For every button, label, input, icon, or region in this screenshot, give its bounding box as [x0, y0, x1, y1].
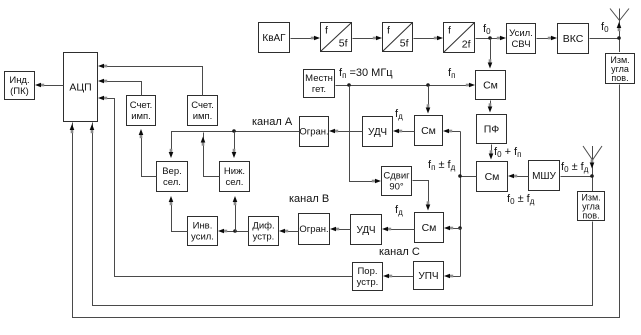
- junction fп branch to Сдвиг: [347, 83, 351, 87]
- svg-text:См: См: [421, 125, 436, 137]
- svg-text:пов.: пов.: [611, 73, 628, 83]
- block Огран-A: [299, 117, 328, 147]
- wire Инв.усил. to Вер.сел.: [172, 199, 188, 232]
- arrowhead into Усил.СВЧ: [497, 36, 506, 41]
- arrowhead into Инв.усил. right: [218, 229, 227, 234]
- wire КвАГ to multiplier1: [291, 38, 315, 40]
- block КвАГ: [259, 23, 290, 53]
- wire См-2 output to bus: [461, 176, 477, 178]
- svg-text:устр.: устр.: [357, 277, 379, 288]
- junction f0 branch: [488, 36, 492, 40]
- arrowhead into Вер.сел. top: [169, 149, 174, 158]
- wire См-B to УДЧ-B: [389, 229, 415, 231]
- svg-text:Инд.: Инд.: [9, 75, 29, 86]
- arrowhead into Ниж.сел. top: [232, 149, 237, 158]
- wire Ниж.сел. to Счет.имп.2: [204, 133, 220, 177]
- svg-text:Счет.: Счет.: [130, 100, 153, 111]
- arrowhead into Огран-B right: [330, 227, 339, 232]
- svg-text:Счет.: Счет.: [191, 100, 214, 111]
- arrowhead into ПФ: [488, 103, 493, 112]
- wire fп±fд bus vertical: [460, 132, 462, 277]
- svg-text:Огран.: Огран.: [299, 127, 328, 138]
- block Местн гет.: [304, 70, 335, 98]
- arrowhead into АЦП right 1: [98, 64, 107, 69]
- arrowhead into АЦП right 2: [98, 79, 107, 84]
- wire Сдвиг to См-B: [413, 181, 429, 207]
- wire канал А line to Вер.сел.: [172, 132, 300, 156]
- svg-text:f: f: [325, 25, 328, 37]
- block Усил.СВЧ: [507, 24, 536, 54]
- wire f0 down to См-1: [490, 39, 492, 65]
- junction antenna A1 feed junction: [617, 36, 621, 40]
- svg-text:гет.: гет.: [312, 84, 326, 95]
- svg-text:имп.: имп.: [131, 111, 151, 122]
- wire УДЧ-B to Огран-B: [337, 229, 351, 231]
- junction bus junction at См-2: [458, 174, 462, 178]
- arrowhead into См-A right: [443, 129, 452, 134]
- wire ПФ to См-2: [491, 145, 493, 156]
- block ПФ: [477, 115, 507, 144]
- svg-text:имп.: имп.: [193, 111, 213, 122]
- svg-text:См: См: [483, 80, 498, 92]
- block Ниж.сел.: [220, 162, 250, 192]
- svg-text:АЦП: АЦП: [69, 82, 91, 94]
- block См #1: [476, 71, 506, 100]
- wire УДЧ-A to Огран-A: [336, 131, 363, 133]
- wire канал А to Ниж.сел.: [234, 132, 236, 156]
- wire bus to УПЧ: [451, 276, 461, 278]
- arrowhead into Инд.(ПК): [35, 83, 44, 88]
- antenna A2 (receive): [583, 146, 602, 191]
- wire Изм.#1 to АЦП long feedback: [73, 85, 620, 318]
- wire multiplier2 to multiplier3: [414, 38, 438, 40]
- arrowhead into См-1 left: [466, 83, 475, 88]
- wire up to Ниж.сел. bottom: [235, 199, 237, 232]
- arrowhead into multiplier2: [373, 36, 382, 41]
- arrowhead into Огран-A right: [329, 129, 338, 134]
- wire МШУ to См-2: [515, 176, 529, 178]
- wire fп line to См-1: [336, 85, 470, 87]
- arrowhead into Пор.устр. right: [383, 274, 392, 279]
- wire antenna A2 to МШУ: [561, 176, 593, 178]
- arrowhead into См-A top: [426, 104, 431, 113]
- svg-text:канал С: канал С: [379, 246, 420, 258]
- block multiplier f/5f #1 (frequency multiplier): [321, 23, 352, 52]
- wire multiplier1 to multiplier2: [353, 38, 377, 40]
- wire fп down to Сдвиг 90: [350, 86, 376, 182]
- arrowhead into АЦП bottom right: [90, 124, 95, 133]
- arrowhead into Счет.имп.1 bottom: [139, 129, 144, 138]
- arrowhead into АЦП bottom left: [70, 124, 75, 133]
- arrowhead into Ниж.сел. bottom: [233, 196, 238, 205]
- arrowhead into Вер.сел. bottom: [169, 196, 174, 205]
- wire См-1 to ПФ: [490, 101, 492, 109]
- block МШУ: [529, 161, 560, 191]
- arrowhead into См-2 right: [508, 174, 517, 179]
- wire Счет.имп.2 to АЦП: [105, 67, 203, 96]
- svg-text:Диф.: Диф.: [252, 221, 274, 232]
- svg-text:Сдвиг: Сдвиг: [383, 171, 410, 182]
- block Диф.устр.: [249, 217, 279, 246]
- arrowhead into См-2 top: [489, 150, 494, 159]
- junction канал А branch junction: [232, 129, 236, 133]
- junction antenna A2 feed junction: [590, 174, 594, 178]
- block АЦП: [64, 53, 98, 122]
- arrowhead into УДЧ-B right: [382, 227, 391, 232]
- block См #2: [477, 162, 508, 192]
- svg-text:(ПК): (ПК): [10, 86, 29, 97]
- block Вер.сел.: [157, 162, 188, 192]
- svg-text:90°: 90°: [389, 182, 404, 193]
- wire Пор.устр. to АЦП: [105, 99, 353, 277]
- wire multiplier3 to Усил.СВЧ: [476, 38, 501, 40]
- arrowhead into ВКС: [548, 36, 557, 41]
- arrowhead into См-B top: [426, 201, 431, 210]
- wire Диф.устр. to Инв.усил.: [225, 231, 249, 233]
- wire Счет.имп.1 to АЦП: [105, 82, 142, 96]
- wire bus to См-A: [450, 131, 461, 133]
- block Огран-B: [299, 214, 330, 245]
- block См-A: [415, 116, 443, 146]
- svg-text:сел.: сел.: [226, 177, 244, 188]
- block УПЧ: [414, 262, 444, 290]
- block См-B: [415, 213, 444, 243]
- svg-text:ПФ: ПФ: [484, 124, 500, 136]
- wire ВКС to antenna A1: [590, 38, 620, 40]
- wire Изм.#2 to АЦП feedback: [93, 123, 593, 306]
- wire fп down to См-A: [428, 86, 430, 110]
- block Сдвиг 90°: [382, 167, 412, 196]
- svg-text:Инв.: Инв.: [193, 221, 213, 232]
- svg-text:f: f: [387, 25, 390, 37]
- svg-text:Ниж.: Ниж.: [224, 166, 245, 177]
- svg-text:усил.: усил.: [191, 232, 214, 243]
- svg-text:СВЧ: СВЧ: [511, 39, 530, 50]
- block Пор.устр.: [353, 263, 383, 291]
- arrowhead into multiplier1: [311, 36, 320, 41]
- svg-text:МШУ: МШУ: [532, 171, 556, 182]
- svg-text:См: См: [485, 171, 500, 183]
- junction bus junction at См-B: [458, 226, 462, 230]
- svg-text:УДЧ: УДЧ: [368, 127, 387, 138]
- svg-text:2f: 2f: [462, 39, 471, 51]
- wire Усил.СВЧ to ВКС: [537, 38, 552, 40]
- block Инд.(ПК): [5, 72, 35, 100]
- wire bus to См-B: [451, 228, 461, 230]
- wire Вер.сел. to Счет.имп.1: [142, 133, 157, 177]
- junction junction to Ниж.сел.: [233, 229, 237, 233]
- svg-text:Вер.: Вер.: [162, 166, 182, 177]
- block Счет.имп. #2: [188, 96, 218, 126]
- arrowhead into Сдвиг 90: [372, 179, 381, 184]
- arrowhead into Счет.имп.2 bottom: [201, 137, 206, 146]
- svg-text:устр.: устр.: [253, 232, 275, 243]
- block УДЧ-A: [363, 117, 393, 147]
- arrowhead into Диф.устр. right: [279, 229, 288, 234]
- block multiplier f/5f #2 (frequency multiplier): [383, 23, 413, 52]
- svg-text:5f: 5f: [339, 38, 348, 50]
- block ВКС: [558, 24, 589, 54]
- antenna A1 (transmit): [610, 9, 629, 53]
- arrowhead into УПЧ right: [444, 274, 453, 279]
- block Счет.имп. #1: [127, 96, 156, 126]
- svg-text:f: f: [448, 25, 451, 37]
- svg-text:УПЧ: УПЧ: [418, 271, 438, 282]
- wire Огран-B to Диф.устр.: [286, 231, 299, 233]
- block multiplier f/2f (frequency multiplier): [444, 23, 475, 53]
- svg-text:См: См: [422, 222, 437, 234]
- wire См-A to УДЧ-A: [400, 131, 415, 133]
- junction fп branch to См-A: [426, 83, 430, 87]
- arrowhead into См-B right: [444, 226, 453, 231]
- svg-text:канал В: канал В: [289, 193, 329, 205]
- svg-text:Пор.: Пор.: [357, 266, 377, 277]
- svg-text:ВКС: ВКС: [563, 33, 584, 45]
- arrowhead into УДЧ-A right: [393, 129, 402, 134]
- svg-text:Усил.: Усил.: [509, 28, 533, 39]
- svg-text:Местн: Местн: [305, 73, 333, 84]
- svg-text:пов.: пов.: [582, 211, 599, 221]
- svg-text:5f: 5f: [400, 38, 409, 50]
- block Изм. угла пов. #2: [578, 192, 605, 221]
- wire УПЧ to Пор.устр.: [390, 276, 414, 278]
- block УДЧ-B: [351, 215, 382, 245]
- svg-text:fп =30 МГц: fп =30 МГц: [339, 67, 393, 80]
- block Инв.усил.: [188, 217, 218, 246]
- arrowhead into См-1 top: [488, 59, 493, 68]
- svg-text:канал А: канал А: [252, 116, 293, 128]
- svg-text:сел.: сел.: [163, 177, 181, 188]
- svg-text:УДЧ: УДЧ: [357, 225, 376, 236]
- block Изм. угла пов. #1: [606, 54, 635, 84]
- arrowhead into multiplier3: [434, 36, 443, 41]
- arrowhead into АЦП right 3: [98, 96, 107, 101]
- wire АЦП to Инд.(ПК): [42, 85, 64, 87]
- svg-text:Огран.: Огран.: [299, 224, 328, 235]
- svg-text:КвАГ: КвАГ: [262, 33, 286, 44]
